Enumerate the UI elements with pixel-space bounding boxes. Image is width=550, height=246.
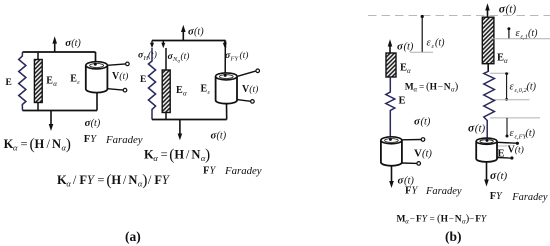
label σ(t) middle (b2) [468, 122, 486, 134]
formula Mα − FY = (H − Nα) − FY (b) [397, 213, 488, 226]
svg-text:(t): (t) [217, 131, 227, 142]
label σ(t) bottom (b2) [490, 170, 508, 182]
svg-text:N: N [191, 147, 200, 161]
label V(t) (a-mid) [242, 84, 258, 95]
svg-text:E: E [46, 76, 53, 87]
svg-text:/: / [73, 173, 77, 187]
svg-text:): ) [205, 146, 210, 163]
svg-text:E: E [140, 75, 146, 85]
stress arrow σ(t) up (a-mid) [181, 25, 186, 41]
svg-text:(a): (a) [125, 229, 141, 244]
svg-text:H: H [430, 82, 438, 92]
caption (a) [125, 229, 141, 244]
svg-text:/: / [123, 173, 127, 187]
label σ(t) top (b1) [397, 41, 414, 53]
label FY Faradey (b2) [490, 191, 548, 203]
label FY Faradey (b1) [405, 186, 462, 198]
reference grey line across damper (b2) [478, 145, 507, 147]
wire top bar (a-left) [23, 51, 96, 53]
spring E (a-mid) [148, 48, 155, 120]
svg-text:/: / [47, 137, 51, 151]
svg-text:E: E [201, 84, 208, 95]
svg-text:E: E [400, 63, 407, 74]
label εε,1(t) (b2) [516, 28, 539, 41]
spring E (b2) [484, 71, 495, 138]
svg-text:(t): (t) [435, 38, 445, 49]
svg-text:=: = [21, 137, 28, 151]
branch arrow down middle (a-mid) [161, 41, 165, 49]
wire hatched branch bottom (a-mid) [165, 113, 167, 120]
terminal bottom V(t) (b1) [402, 162, 421, 166]
svg-text:(t): (t) [194, 27, 204, 38]
wire below damper (a-mid) [226, 104, 228, 120]
svg-text:E: E [70, 74, 77, 85]
svg-text:α: α [414, 87, 418, 94]
svg-text:α: α [504, 57, 508, 65]
svg-text:H: H [174, 147, 184, 161]
svg-text:N: N [444, 82, 451, 92]
label σ(t) bottom (a-mid) [211, 130, 227, 142]
svg-text:F: F [84, 134, 90, 145]
strain dimension line εε(t) (b1) [410, 15, 433, 52]
label Eα (b1) [400, 63, 411, 76]
svg-text:(t): (t) [526, 128, 536, 139]
svg-text:(t): (t) [119, 71, 128, 82]
svg-text:E: E [498, 149, 505, 160]
wire bottom bar (a-left) [23, 110, 98, 112]
wire hatched branch top (a-mid) [165, 48, 167, 71]
stress arrow σ(t) down (a-left) [49, 111, 54, 132]
label σ(t) top (a-left) [65, 37, 81, 49]
wire below damper (a-left) [96, 93, 98, 110]
svg-text:): ) [142, 172, 147, 189]
svg-text:(t): (t) [71, 38, 81, 49]
svg-text:=: = [430, 214, 435, 224]
svg-text:(t): (t) [181, 51, 190, 62]
svg-text:E: E [176, 85, 183, 96]
wire right branch to damper (a-mid) [224, 41, 226, 75]
svg-text:N: N [52, 137, 61, 151]
svg-text:N: N [455, 214, 462, 224]
svg-text:(t): (t) [421, 117, 431, 128]
svg-text:(t): (t) [422, 149, 432, 160]
label σFY(t) (a-mid) [225, 50, 248, 62]
stress arrow σ(t) up (b2) [485, 3, 490, 19]
svg-text:=: = [97, 173, 104, 187]
label σ(t) top (a-mid) [188, 26, 204, 38]
svg-text:Faradey: Faradey [105, 134, 143, 146]
wire right side down to damper (a-left) [95, 52, 97, 63]
svg-text:(t): (t) [527, 82, 537, 93]
label εε,0,2(t) (b2) [510, 82, 537, 95]
label V(t) (b1) [414, 148, 432, 160]
svg-text:E: E [6, 78, 12, 88]
strain dimension εε,0,2(t) (b2) [490, 72, 530, 101]
svg-text:V: V [414, 148, 422, 160]
label Eα (a-left) [46, 76, 57, 88]
reference dashed line top (b) [368, 15, 550, 17]
svg-text:): ) [455, 81, 459, 93]
terminal top V(t) (a-left) [107, 62, 129, 66]
svg-text:Faradey: Faradey [425, 186, 462, 197]
svg-text:−: − [438, 82, 443, 92]
svg-text:): ) [66, 136, 71, 153]
wire top bar (a-mid) [152, 40, 226, 42]
branch arrow down right (a-mid) [223, 41, 227, 49]
terminal top V(t) (b2) [497, 142, 519, 145]
label σ(t) bottom (a-left) [85, 117, 101, 129]
svg-text:H: H [35, 137, 45, 151]
svg-text:FY: FY [230, 56, 240, 63]
hatched element Nα (a-mid) [162, 70, 170, 113]
svg-text:M: M [405, 82, 414, 92]
svg-text:=: = [419, 82, 424, 92]
hatched element Nα (b2) [482, 17, 494, 64]
svg-text:Faradey: Faradey [511, 192, 548, 203]
svg-text:M: M [397, 214, 406, 224]
damper cylinder FY (a-mid) [216, 73, 237, 104]
label Eε (a-mid) [201, 84, 211, 96]
label FY Faradey (a-left) [84, 134, 143, 146]
svg-text:=: = [161, 147, 168, 161]
label Eα (b2) [497, 53, 508, 66]
damper cylinder FY (a-left) [86, 62, 108, 93]
damper cylinder FY (b1) [381, 137, 402, 166]
svg-text:H: H [111, 173, 121, 187]
svg-text:/: / [148, 173, 152, 187]
wire bottom bar (a-mid) [152, 119, 227, 121]
label Eε (a-left) [70, 74, 80, 86]
svg-text:(t): (t) [249, 84, 258, 95]
wire hatched branch top (a-left) [37, 52, 39, 60]
wire hatched to spring (b2) [487, 64, 489, 71]
strain dimension εε,FY(t) (b2) [490, 118, 540, 138]
label V(t) (b2) [508, 145, 524, 156]
svg-text:−: − [469, 214, 474, 224]
svg-text:E: E [497, 53, 504, 64]
formula Mα = (H − Nα) (b1) [405, 81, 459, 94]
svg-text:E: E [399, 96, 406, 107]
svg-text:−: − [449, 214, 454, 224]
spring E (a-left) [19, 52, 26, 111]
label σ(t) top (b2) [499, 1, 517, 15]
stress arrow σ(t) down (b2) [484, 162, 489, 187]
svg-text:Faradey: Faradey [224, 165, 262, 177]
label σ(t) middle (b1) [414, 116, 431, 128]
svg-text:α: α [13, 143, 18, 153]
label E (a-mid spring) [140, 75, 146, 85]
svg-text:F: F [203, 165, 209, 176]
svg-text:α: α [407, 67, 411, 75]
label σH(t) (a-mid) [138, 50, 157, 62]
svg-text:(t): (t) [240, 50, 249, 61]
terminal bottom V(t) (b2) [497, 156, 514, 159]
svg-text:H: H [441, 214, 449, 224]
svg-text:ε: ε [77, 79, 80, 86]
label Eα (a-mid) [176, 85, 187, 97]
svg-text:(b): (b) [445, 229, 462, 244]
label σNα(t) (a-mid) [168, 51, 190, 65]
svg-text:−: − [410, 214, 415, 224]
svg-text:N: N [128, 173, 137, 187]
spring E (b1) [386, 77, 395, 137]
label E (a-left spring) [6, 78, 12, 88]
terminal top V(t) (a-mid) [237, 69, 260, 76]
svg-text:α: α [183, 89, 187, 97]
label σ(t) bottom (b1) [398, 175, 415, 187]
svg-text:(t): (t) [528, 28, 538, 39]
svg-text:ε,1: ε,1 [521, 33, 528, 40]
label εε(t) (b1) [427, 38, 446, 51]
stress arrow σ(t) up (a-left) [52, 36, 57, 52]
formula Kα / FY = (H / Nα) / FY (a-bottom) [57, 172, 171, 189]
formula Kα = (H / Nα) (a-left) [4, 136, 71, 153]
stress arrow σ(t) up (b1) [388, 39, 393, 53]
svg-text:(t): (t) [497, 170, 508, 182]
strain dimension εε,1(t) tick (b2) [491, 27, 550, 39]
label E (b2 damper) [498, 149, 505, 160]
branch arrow down left (a-mid) [150, 41, 154, 49]
label εε,FY(t) (b2) [510, 128, 536, 141]
svg-text:(t): (t) [91, 118, 101, 129]
caption (b) [445, 229, 462, 244]
svg-text:(t): (t) [515, 145, 524, 156]
svg-text:(t): (t) [404, 42, 414, 53]
svg-text:α: α [53, 80, 57, 88]
svg-text:α: α [66, 179, 71, 189]
label E (b1 spring) [399, 96, 406, 107]
stress arrow σ(t) down (b1) [389, 166, 394, 188]
svg-text:(t): (t) [475, 122, 486, 134]
svg-text:/: / [186, 147, 190, 161]
svg-text:(t): (t) [506, 3, 517, 15]
svg-text:F: F [405, 186, 411, 197]
label V(t) (a-left) [112, 71, 128, 82]
wire hatched branch bottom (a-left) [37, 103, 39, 111]
terminal bottom V(t) (a-left) [107, 88, 126, 92]
svg-text:α: α [153, 153, 158, 163]
hatched element Nα (a-left) [34, 60, 42, 103]
stress arrow σ(t) down (a-mid) [178, 120, 183, 141]
hatched element Nα (b1) [386, 53, 396, 77]
label FY Faradey (a-mid) [203, 165, 262, 177]
formula Kα = (H / Nα) (a-mid) [144, 146, 210, 163]
terminal bottom V(t) (a-mid) [237, 100, 254, 104]
damper cylinder FY (b2) [476, 138, 497, 162]
terminal top V(t) (b1) [402, 138, 425, 142]
svg-text:ε: ε [208, 89, 211, 96]
